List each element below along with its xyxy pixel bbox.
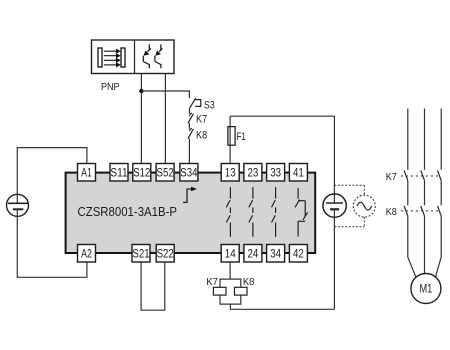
- svg-text:13: 13: [225, 165, 236, 179]
- terminal 41: [289, 164, 307, 182]
- wire A1 up: [17, 148, 87, 203]
- svg-text:41: 41: [293, 165, 304, 179]
- terminal 13: [221, 164, 239, 182]
- coil K7: [213, 287, 226, 295]
- DC supply G1: [7, 194, 29, 216]
- beam arrow 3: [104, 58, 121, 63]
- svg-text:S22: S22: [157, 246, 174, 260]
- svg-text:CZSR8001-3A1B-P: CZSR8001-3A1B-P: [78, 204, 178, 219]
- terminal S22: [156, 245, 174, 263]
- NO contact path 23-24: [249, 187, 253, 237]
- phase mid leads: [408, 180, 441, 205]
- wire 13 up to fuse: [229, 116, 231, 163]
- contactor K7 main contacts: [404, 170, 441, 180]
- svg-text:24: 24: [248, 246, 259, 260]
- beam arrow 1: [104, 49, 121, 54]
- terminal 14: [221, 245, 239, 263]
- terminal A1: [78, 164, 96, 182]
- NO contact path 33-34: [272, 187, 276, 237]
- OSSD photo output symbol 1: [143, 44, 151, 68]
- NC contact path 41-42: [295, 188, 308, 237]
- contact K7 feedback: [188, 113, 193, 123]
- svg-text:K8: K8: [196, 130, 207, 142]
- wire junction to S3: [141, 91, 189, 98]
- svg-text:M1: M1: [420, 282, 433, 296]
- wire OSSD1 to S12: [140, 74, 142, 164]
- terminal S52: [156, 164, 174, 182]
- terminal A2: [78, 245, 96, 263]
- svg-text:A2: A2: [81, 246, 92, 260]
- svg-text:S3: S3: [204, 99, 215, 111]
- phase lower leads to motor: [408, 216, 441, 278]
- svg-text:K7: K7: [386, 171, 397, 183]
- phase line L1: [407, 109, 409, 170]
- svg-text:S11: S11: [110, 165, 127, 179]
- K7 mechanical link dashed: [401, 175, 440, 177]
- svg-text:42: 42: [293, 246, 304, 260]
- wire S3 to K7: [188, 109, 190, 114]
- AC sine wave: [357, 202, 372, 210]
- svg-text:K7: K7: [206, 276, 218, 288]
- wire K8 to S34: [188, 138, 190, 163]
- svg-text:K7: K7: [196, 114, 207, 126]
- terminal S21: [132, 245, 150, 263]
- wire G1 to A2: [17, 209, 87, 277]
- DC supply G2: [323, 194, 346, 217]
- terminal S34: [180, 164, 198, 182]
- receiver lens right: [121, 48, 125, 67]
- contactor K8 main contacts: [404, 206, 441, 216]
- svg-text:S21: S21: [132, 246, 149, 260]
- terminal 42: [289, 245, 307, 263]
- coil branch bottom bar: [220, 295, 241, 304]
- svg-text:S34: S34: [180, 165, 197, 179]
- safety relay body: [66, 173, 316, 253]
- coil K8: [235, 287, 248, 295]
- right rail down to G2: [333, 116, 335, 203]
- terminal 23: [244, 164, 262, 182]
- svg-text:A1: A1: [81, 165, 92, 179]
- phase line L2: [424, 109, 426, 170]
- svg-text:34: 34: [270, 246, 281, 260]
- light curtain box divider: [134, 40, 136, 74]
- terminal 34: [267, 245, 285, 263]
- AC source alternative dashed links: [334, 185, 364, 226]
- terminal 24: [244, 245, 262, 263]
- NO contact path 13-14: [226, 187, 230, 237]
- svg-text:S52: S52: [157, 165, 174, 179]
- AC source alternative circle: [353, 195, 375, 217]
- svg-text:K8: K8: [243, 276, 255, 288]
- terminal S11: [110, 164, 128, 182]
- jumper S21 to S22: [141, 262, 165, 310]
- junction dot: [139, 89, 143, 93]
- emitter lens left: [98, 48, 102, 67]
- switch S3 (start button): [189, 98, 200, 108]
- reset edge arrow: [183, 187, 197, 203]
- wire OSSD2 to S52: [164, 74, 166, 164]
- coil branch top bar: [220, 279, 241, 287]
- wire K7 to K8: [188, 123, 190, 129]
- terminal S12: [133, 164, 151, 182]
- svg-text:PNP: PNP: [101, 82, 120, 93]
- right rail G2 down: [333, 209, 335, 309]
- OSSD photo output symbol 2: [155, 44, 163, 68]
- wire fuse top to right rail: [230, 115, 334, 117]
- svg-text:S12: S12: [133, 165, 150, 179]
- terminal 33: [267, 164, 285, 182]
- fuse F1: [228, 127, 235, 146]
- wire 14 down to coils: [229, 262, 231, 279]
- svg-text:33: 33: [270, 165, 281, 179]
- svg-text:14: 14: [225, 246, 236, 260]
- motor M1: [411, 274, 441, 304]
- phase line L3: [440, 109, 442, 170]
- beam arrow 2: [104, 53, 121, 58]
- svg-text:K8: K8: [386, 206, 397, 218]
- K8 mechanical link dashed: [401, 210, 440, 212]
- svg-text:F1: F1: [237, 131, 246, 143]
- beam arrow 4: [104, 62, 121, 67]
- wire coils to right rail: [230, 304, 334, 309]
- svg-text:23: 23: [248, 165, 259, 179]
- contact K8 feedback: [188, 128, 193, 138]
- light curtain sensor box: [92, 40, 175, 74]
